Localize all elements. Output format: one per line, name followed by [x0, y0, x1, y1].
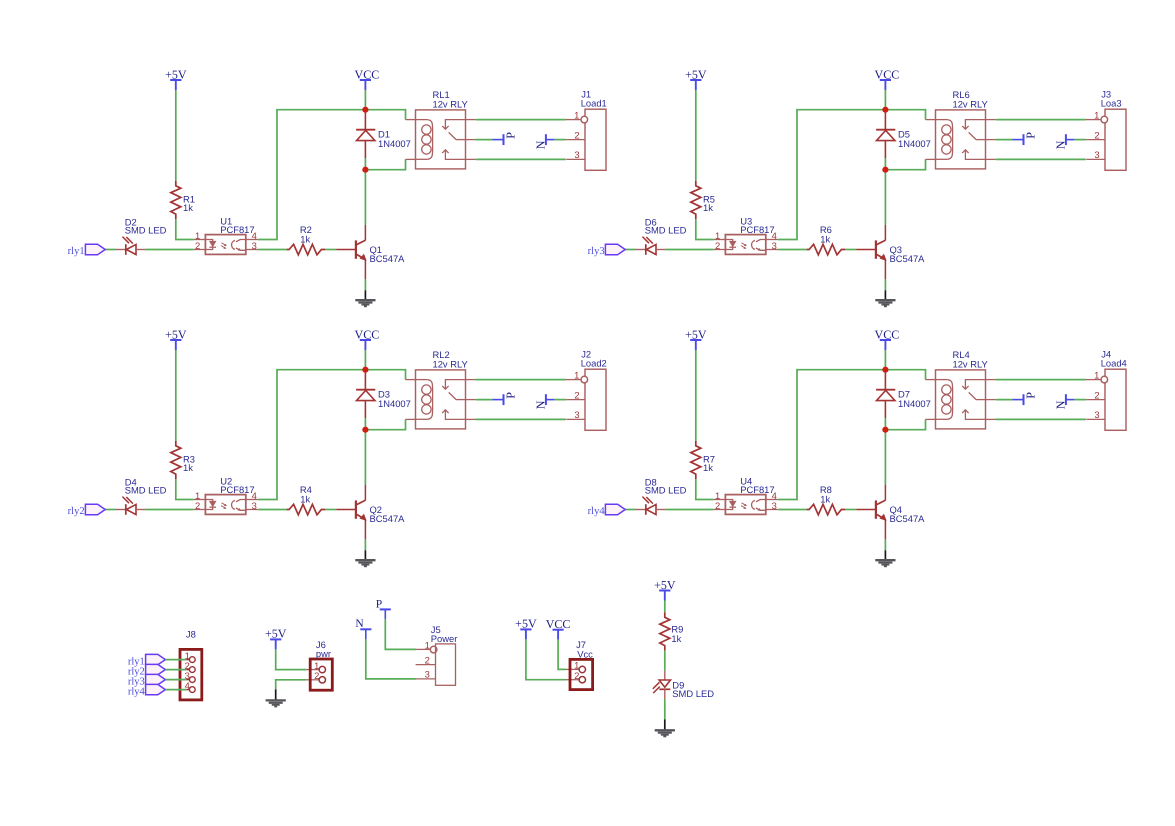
svg-text:Loa3: Loa3	[1101, 97, 1122, 108]
svg-text:3: 3	[252, 240, 257, 251]
svg-text:3: 3	[1094, 409, 1099, 420]
svg-text:3: 3	[574, 149, 579, 160]
svg-text:BC547A: BC547A	[370, 253, 406, 264]
svg-text:N: N	[533, 400, 547, 409]
svg-text:P: P	[1024, 132, 1038, 139]
svg-text:N: N	[533, 140, 547, 149]
svg-text:3: 3	[252, 500, 257, 511]
svg-text:BC547A: BC547A	[890, 253, 926, 264]
svg-text:3: 3	[425, 669, 430, 680]
svg-text:P: P	[504, 132, 518, 139]
svg-text:BC547A: BC547A	[890, 513, 926, 524]
svg-text:1: 1	[574, 369, 579, 380]
svg-text:2: 2	[574, 389, 579, 400]
svg-text:Power: Power	[431, 633, 458, 644]
svg-text:1k: 1k	[300, 233, 310, 244]
svg-text:J8: J8	[186, 629, 196, 640]
svg-text:2: 2	[195, 240, 200, 251]
svg-text:1: 1	[574, 109, 579, 120]
svg-text:1: 1	[1094, 369, 1099, 380]
svg-text:1k: 1k	[703, 202, 713, 213]
svg-text:1k: 1k	[183, 462, 193, 473]
svg-text:pwr: pwr	[316, 648, 331, 659]
svg-text:12v RLY: 12v RLY	[953, 359, 989, 370]
svg-text:1N4007: 1N4007	[378, 138, 411, 149]
svg-text:4: 4	[185, 680, 190, 691]
svg-text:PCF817: PCF817	[740, 224, 774, 235]
svg-text:Vcc: Vcc	[577, 649, 593, 660]
svg-text:BC547A: BC547A	[370, 513, 406, 524]
svg-text:SMD LED: SMD LED	[645, 225, 687, 236]
svg-text:rly4: rly4	[588, 506, 606, 517]
svg-text:1k: 1k	[183, 202, 193, 213]
svg-text:1k: 1k	[820, 233, 830, 244]
svg-text:PCF817: PCF817	[740, 484, 774, 495]
svg-text:1N4007: 1N4007	[898, 138, 931, 149]
svg-text:1k: 1k	[300, 493, 310, 504]
svg-text:3: 3	[574, 409, 579, 420]
svg-text:rly3: rly3	[588, 246, 605, 257]
svg-text:SMD LED: SMD LED	[125, 225, 167, 236]
svg-text:PCF817: PCF817	[220, 484, 254, 495]
svg-text:1k: 1k	[671, 633, 681, 644]
svg-text:2: 2	[1094, 389, 1099, 400]
svg-text:3: 3	[772, 500, 777, 511]
svg-text:1N4007: 1N4007	[898, 398, 931, 409]
svg-text:2: 2	[425, 654, 430, 665]
svg-text:P: P	[1024, 392, 1038, 399]
svg-text:12v RLY: 12v RLY	[953, 99, 989, 110]
svg-text:2: 2	[715, 500, 720, 511]
svg-text:rly4: rly4	[128, 686, 146, 697]
svg-text:rly1: rly1	[68, 246, 85, 257]
svg-text:12v RLY: 12v RLY	[433, 359, 469, 370]
svg-text:2: 2	[574, 670, 579, 681]
svg-text:1N4007: 1N4007	[378, 398, 411, 409]
svg-text:N: N	[1053, 400, 1067, 409]
svg-text:Load2: Load2	[581, 357, 607, 368]
svg-text:2: 2	[574, 129, 579, 140]
svg-text:Load1: Load1	[581, 97, 607, 108]
svg-text:12v RLY: 12v RLY	[433, 99, 469, 110]
svg-text:SMD LED: SMD LED	[125, 485, 167, 496]
svg-text:P: P	[504, 392, 518, 399]
svg-text:3: 3	[772, 240, 777, 251]
svg-text:1: 1	[425, 639, 430, 650]
svg-text:rly2: rly2	[68, 506, 85, 517]
svg-text:1k: 1k	[820, 493, 830, 504]
svg-text:2: 2	[314, 670, 319, 681]
svg-text:2: 2	[715, 240, 720, 251]
svg-text:1: 1	[1094, 109, 1099, 120]
svg-text:SMD LED: SMD LED	[672, 688, 714, 699]
svg-text:3: 3	[1094, 149, 1099, 160]
svg-text:PCF817: PCF817	[220, 224, 254, 235]
svg-text:2: 2	[1094, 129, 1099, 140]
svg-text:Load4: Load4	[1101, 357, 1127, 368]
svg-text:SMD LED: SMD LED	[645, 485, 687, 496]
svg-text:N: N	[1053, 140, 1067, 149]
svg-text:1k: 1k	[703, 462, 713, 473]
svg-text:2: 2	[195, 500, 200, 511]
